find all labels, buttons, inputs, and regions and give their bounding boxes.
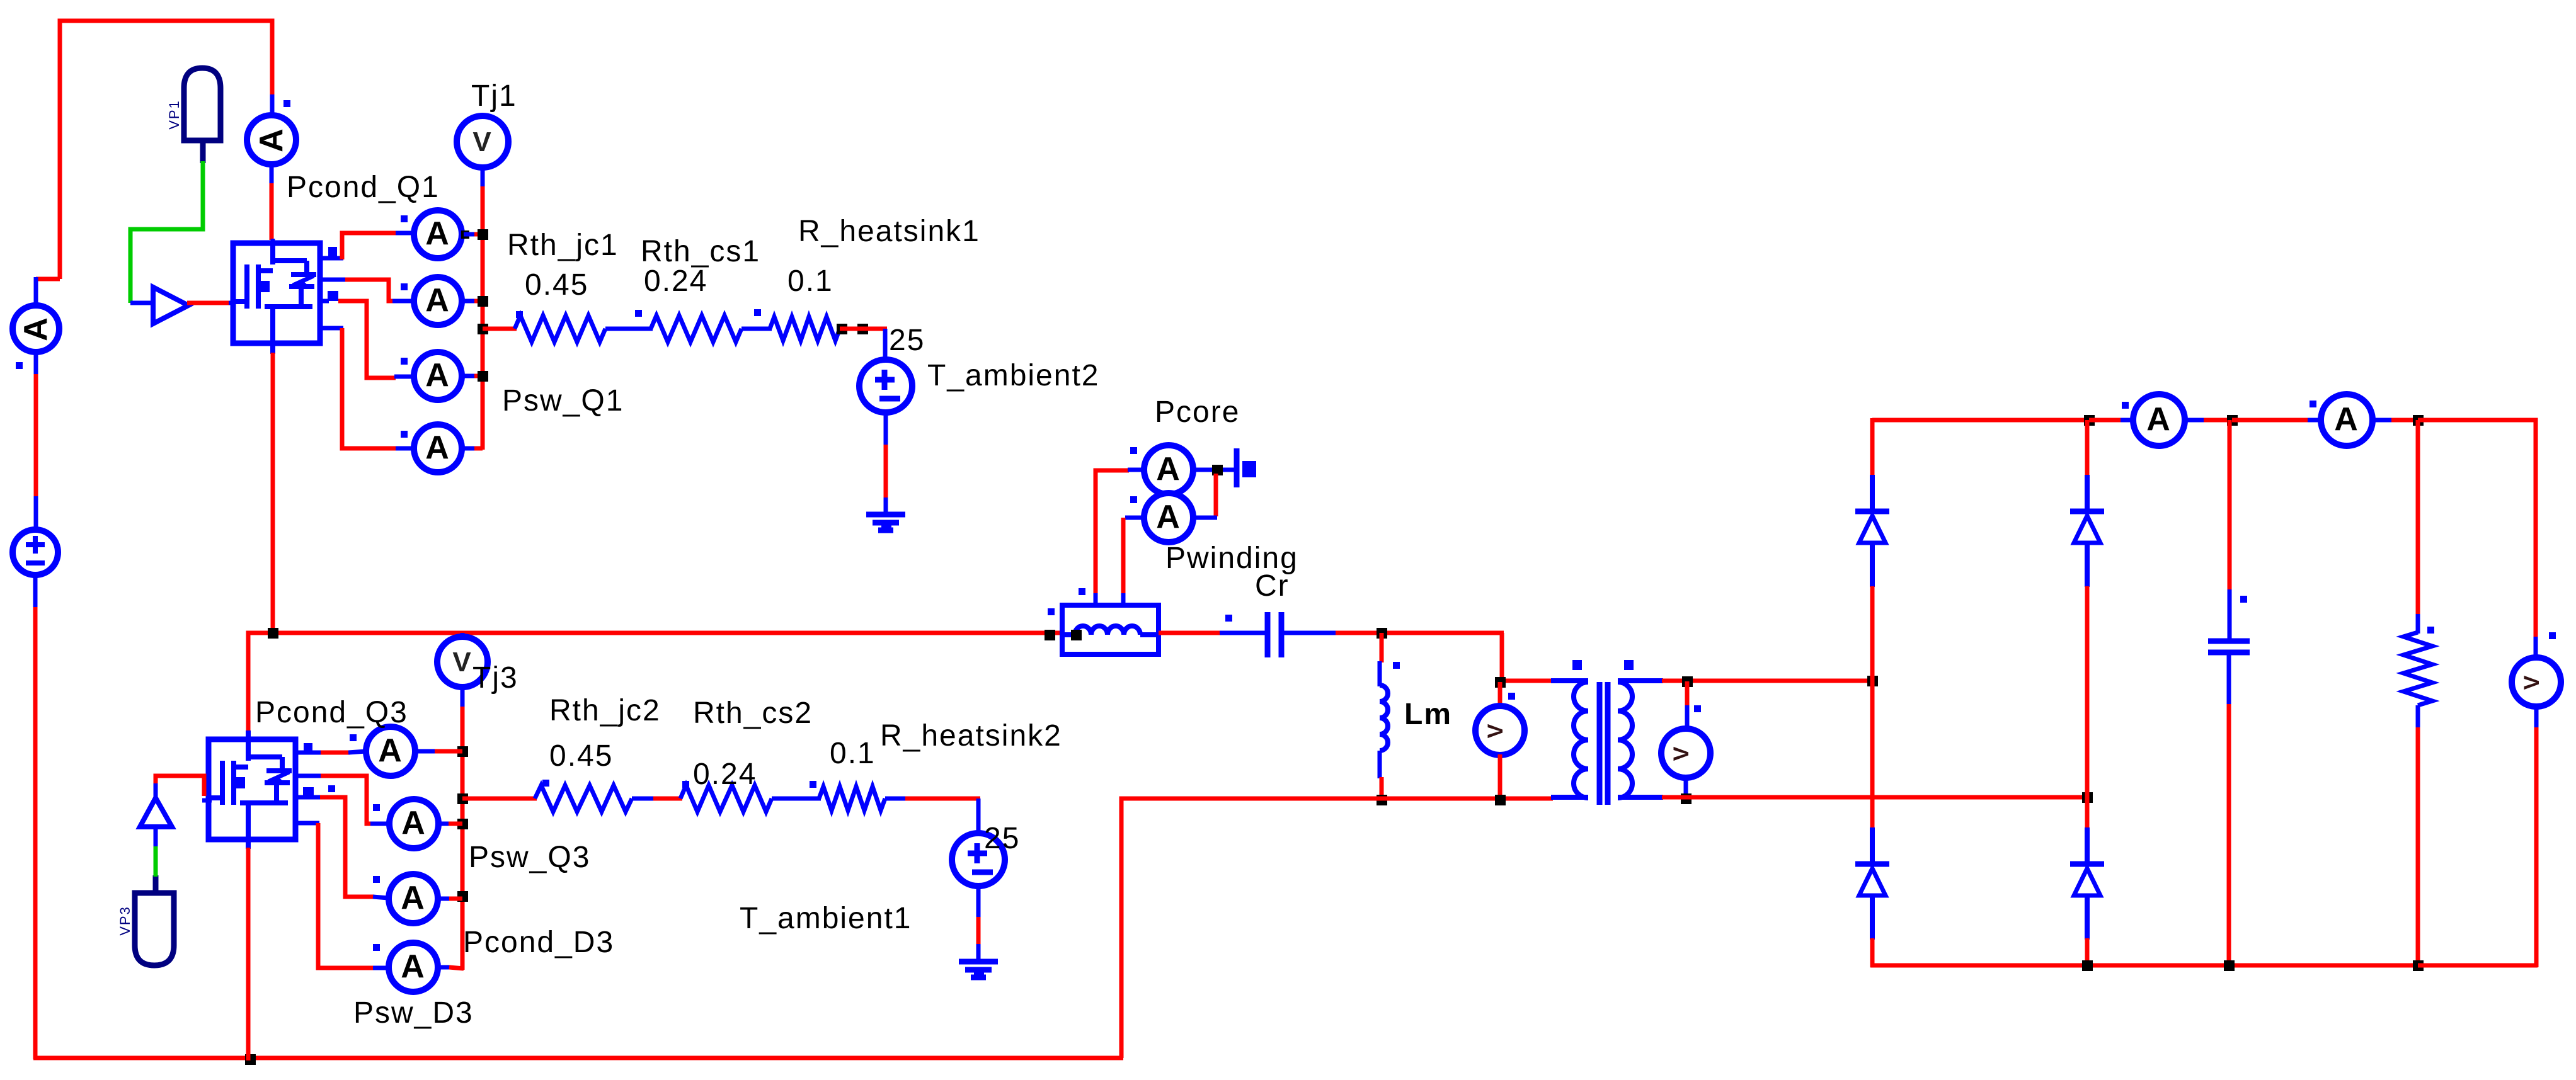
svg-text:A: A [1156,499,1181,535]
wire Pcore right + terminator [1193,468,1235,472]
wire probe leg [2504,420,2536,638]
wire to Rth_jc1 [483,327,517,331]
svg-text:T_ambient2: T_ambient2 [927,359,1099,392]
junction bridge top at right leg [2084,415,2095,426]
wire Lm bottom [1378,751,1382,778]
capacitor C_out [2208,639,2250,644]
ammeter A_top [270,94,275,117]
svg-text:Lm: Lm [1404,698,1452,731]
wire secondary top [1662,679,1874,683]
svg-text:25: 25 [889,324,925,357]
wire link3 [632,797,655,801]
voltage probe VM2 secondary [1685,681,1690,707]
wire bottom rail [33,1056,1123,1060]
svg-text:V: V [452,647,472,678]
wire top bus [60,21,272,279]
ammeter A Pcond_Q3 [366,727,415,776]
svg-text:Rth_cs1: Rth_cs1 [641,235,760,268]
wire Tj3 down [461,687,465,708]
dc source VDC [13,530,58,575]
junction VM2 top [1682,676,1693,687]
wire choke to Cr [1159,631,1221,635]
svg-text:VP3: VP3 [117,906,133,936]
svg-text:25: 25 [984,822,1020,855]
svg-text:0.24: 0.24 [644,264,707,298]
ammeter A4 Psw_D3 [389,943,438,992]
terminator Pcore [1234,448,1240,487]
wire below VDC [33,574,38,608]
signal source VP1 block [184,68,220,140]
svg-text:A: A [425,429,450,466]
junction Tj3 chain [457,746,468,757]
resistor Rth_cs2 0.24 [680,785,772,812]
svg-text:0.45: 0.45 [549,739,613,773]
junction bottom rail [245,1054,256,1065]
wire bottom resonant bus [1121,799,1553,1058]
capacitor Cr [1265,612,1271,657]
wire cap leg lower [2227,652,2231,705]
diode D3 [1870,827,1875,864]
wire Q1 pin3 to A3 [320,299,329,304]
wire link2 [741,327,772,331]
svg-text:Rth_jc1: Rth_jc1 [507,229,619,262]
svg-text:Tj1: Tj1 [471,79,517,113]
svg-text:Rth_cs2: Rth_cs2 [693,696,813,730]
wire Q3 pin1 to A1 [295,751,322,755]
junction Tj1 chain [478,229,488,240]
diode D4 [2085,827,2090,864]
svg-text:Cr: Cr [1255,569,1290,603]
wire Cr to node [1281,631,1337,635]
svg-text:Psw_Q3: Psw_Q3 [469,841,590,874]
svg-text:A: A [425,215,450,252]
svg-text:V: V [1484,723,1508,739]
wire bridge top rail [1872,418,2536,423]
voltmeter Tj1 [457,116,508,168]
svg-text:R_heatsink1: R_heatsink1 [798,215,980,248]
svg-text:VP1: VP1 [166,99,182,130]
junction secondary to bridge right [2082,792,2093,803]
wire Pcore ammeter left [1096,470,1129,594]
ammeter A4 Q1 [414,424,462,472]
ammeter A_out1 [2089,418,2122,423]
svg-text:Pcond_Q3: Pcond_Q3 [255,696,408,729]
wire Q3 pin3 to A3 [295,795,321,800]
wire Q3 drain top [246,730,251,741]
wire bridge left leg upper [1870,418,1875,477]
wire bridge left leg lower [1870,938,1875,967]
svg-text:V: V [472,127,492,157]
wire resistor leg upper [2418,418,2505,423]
svg-text:V: V [1669,746,1693,761]
junction resistor leg top [2413,415,2424,426]
wire to T_ambient1 [885,797,907,801]
svg-text:A: A [253,127,290,152]
junction Q1 source on bus [268,628,278,639]
resistor R_load [2403,632,2432,705]
wire Lm top [1380,633,1384,662]
op-amp buffer U1 [153,287,188,324]
wire primary top lead [1502,679,1553,683]
svg-text:0.45: 0.45 [525,268,588,302]
svg-text:A: A [401,880,426,916]
inductor Lm [1380,685,1388,751]
resistor Rth_cs1 0.24 [651,315,741,342]
junction cap leg bottom [2224,960,2235,971]
ammeter A3 Pcond_D3 [389,874,438,923]
junction Lm top [1377,628,1387,639]
junction resistor leg bottom [2413,960,2424,971]
junction bus at choke [1045,630,1055,640]
wire T_ambient1 to ground [976,885,981,918]
source T_ambient2 25 [859,360,912,412]
signal source VP3 block [135,893,174,965]
wire bridge left leg mid [1870,586,1875,830]
ammeter A Pcore [1144,445,1193,494]
wire green gate drive Q3 [154,845,158,877]
wire resistor leg lower [2416,705,2420,729]
junction VM1 bottom [1495,795,1506,805]
ammeter A Pcond_Q1 [414,210,462,258]
svg-text:Rth_jc2: Rth_jc2 [549,694,661,727]
wire U3 to Q3 gate [154,782,158,800]
op-amp buffer U3 [140,798,172,827]
transistor Q1 (MOSFET thermal block) [233,243,338,343]
svg-text:V: V [2520,674,2544,690]
wire Pwinding ammeter left [1125,516,1145,520]
junction VM2 bottom [1681,793,1692,804]
polarity mark primary [1572,660,1582,670]
junction bridge bottom right leg [2082,960,2093,971]
resistor Rth_jc1 0.45 [515,315,605,342]
wire Q1 source down to mid bus [270,343,275,354]
ammeter A3 Psw_Q1 [414,352,462,400]
wire T_ambient2 to ground [884,412,888,446]
ammeter A_in left [13,305,59,352]
wire below left ammeter [34,351,38,375]
wire to left ammeter [36,277,60,281]
svg-text:0.24: 0.24 [693,758,757,791]
junction VM1 top [1495,677,1506,688]
transformer T1 [1551,678,1588,683]
wire probe leg bottom [2418,963,2536,968]
diode D1 [1870,475,1875,511]
wire green gate drive Q1 [130,161,203,303]
wire to Rth_jc2 [462,797,537,801]
wire Q1 pin2 to A2 [320,278,346,282]
wire Q3 source down [246,837,251,849]
svg-text:A: A [378,732,403,769]
wire cap leg upper [2228,420,2232,591]
wire bridge right leg upper [2085,420,2090,477]
ammeter A2 Q1 [414,277,462,325]
svg-text:0.1: 0.1 [830,737,876,770]
wire Q1 pin1 to A_cond1 [320,256,343,261]
svg-text:A: A [425,282,450,319]
junction Lm bottom [1377,795,1387,805]
wire bridge right leg lower [2085,938,2090,967]
wire Tj1 down [481,168,485,188]
wire Q3 pin4 to A4 [295,821,319,826]
wire bridge bottom rail [1870,963,2538,968]
wire U1 to Q1 gate [187,301,230,305]
svg-text:A: A [2334,401,2359,438]
inductor Pwinding choke block [1062,605,1159,654]
junction cap leg top [2227,415,2238,426]
wire mid bus [248,633,1064,737]
svg-text:Pcond_D3: Pcond_D3 [463,926,614,959]
svg-text:A: A [401,805,426,841]
svg-text:R_heatsink2: R_heatsink2 [880,719,1062,753]
svg-text:Psw_Q1: Psw_Q1 [502,384,624,418]
ammeter A_out2 [2232,418,2309,423]
wire to T_ambient2 [840,327,887,331]
svg-text:A: A [425,357,450,394]
resistor Rth_jc2 0.45 [535,785,632,812]
voltage probe VM1 primary [1498,682,1503,708]
ground below T_ambient2 [866,512,905,518]
svg-text:A: A [1156,451,1181,487]
transistor Q3 (MOSFET thermal block) [209,739,314,839]
svg-text:Tj3: Tj3 [472,661,518,695]
svg-text:A: A [18,316,54,341]
wire stubs into choke block [1094,593,1098,606]
svg-text:Pcore: Pcore [1155,395,1240,429]
ammeter A Pwinding [1193,516,1217,520]
resistor R_heatsink1 0.1 [770,317,840,341]
wire A_top to Q1 drain [270,183,274,240]
diode D2 [2085,475,2090,511]
svg-text:0.1: 0.1 [787,264,833,298]
svg-text:T_ambient1: T_ambient1 [740,902,912,935]
svg-text:Pcond_Q1: Pcond_Q1 [287,171,440,204]
svg-text:A: A [401,948,426,985]
polarity mark secondary [1624,660,1634,670]
svg-text:A: A [2146,401,2172,438]
wire Pcore to Pwinding meter [1214,474,1218,516]
ammeter A2 Psw_Q3 [389,799,438,848]
svg-text:Psw_D3: Psw_D3 [353,996,474,1030]
voltmeter Tj3 [461,633,465,638]
source T_ambient1 25 [952,833,1005,886]
voltage probe VM_out [2512,657,2561,707]
wire link4 [772,797,821,801]
wire bridge right leg mid [2085,586,2090,830]
ground below T_ambient1 [959,959,998,965]
wire link [605,327,653,331]
wire Q3 pin2 to A2 [295,774,322,778]
wire secondary bottom [1662,795,2089,800]
resistor R_heatsink2 0.1 [819,787,885,810]
junction after R_heatsink1 [837,324,847,334]
junction secondary to bridge left [1867,676,1878,686]
polarity marks [283,100,290,107]
wire Q1 pin4 to A4 [320,326,343,331]
